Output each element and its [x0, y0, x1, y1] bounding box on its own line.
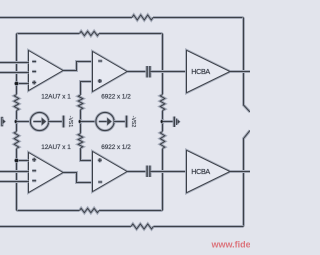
U1 minus mark 2 [32, 70, 36, 73]
wire right rail top with exit diagonal [244, 18, 251, 113]
resistor R7 mid rail upper [78, 95, 83, 110]
wire U4 output [127, 170, 146, 173]
U2 plus mark [98, 79, 102, 83]
ground right marker [173, 117, 176, 128]
wire U3 non-inverting input [17, 159, 29, 162]
wire U3 output step [63, 173, 93, 183]
wire U3 inverting input A [0, 170, 29, 173]
U4 plus mark [98, 158, 102, 162]
wire U1 output step [63, 62, 93, 71]
buffer A1 HCBA top [187, 50, 231, 92]
wire A2 output [230, 170, 250, 173]
wire U1 non-inverting input [17, 82, 29, 85]
node U1 plus tap [14, 81, 19, 86]
svg-text:HCBA: HCBA [191, 67, 210, 76]
op-amp U1 12AU7 top [29, 51, 64, 91]
svg-text:-VS1: -VS1 [67, 116, 73, 128]
wire U3 inverting input B [0, 180, 29, 183]
resistor R8 mid rail lower [78, 134, 83, 149]
svg-text:www.fide: www.fide [211, 240, 251, 250]
current source I2 [96, 112, 114, 130]
U1 minus mark 1 [32, 60, 36, 63]
wire bottom feedback bus [0, 225, 244, 228]
terminal VS2 bar [125, 116, 128, 128]
ground left marker [0, 117, 4, 127]
U3 minus mark 1 [32, 169, 36, 172]
svg-text:12AU7 x 1: 12AU7 x 1 [41, 144, 71, 151]
resistor R6 left rail lower [14, 132, 19, 149]
node mid rail junction [78, 119, 83, 124]
wire right rail bottom with entry diagonal [244, 131, 251, 227]
wire U1 inverting input A [0, 61, 29, 64]
wire inner top bus [17, 32, 163, 35]
wire C1 to buffer A1 [151, 70, 187, 73]
resistor R10 right rail lower [160, 132, 165, 149]
current source I1 [30, 112, 48, 130]
svg-text:HCBA: HCBA [191, 167, 210, 176]
buffer A2 HCBA bottom [187, 150, 231, 192]
wire middle divider rail [81, 82, 93, 161]
wire C2 to buffer A2 [151, 170, 187, 173]
wire left divider rail [15, 34, 18, 211]
resistor R4 inner bottom [80, 208, 99, 212]
capacitor C1 top coupling [147, 66, 150, 78]
resistor R3 inner top [80, 31, 99, 35]
node right rail mid junction [160, 119, 165, 124]
op-amp U3 12AU7 bottom [29, 153, 64, 193]
wire junction to I1 [17, 120, 31, 123]
svg-text:-VS2: -VS2 [130, 116, 136, 128]
resistor R2 bottom feedback [131, 224, 153, 229]
U1 plus mark [32, 81, 36, 85]
terminal VS1 bar [62, 116, 65, 128]
node left rail mid junction [14, 119, 19, 124]
wire U1 inverting input B [0, 71, 29, 74]
node U3 plus tap [14, 158, 19, 163]
wire inner bottom bus [17, 209, 163, 212]
svg-text:6922 x 1/2: 6922 x 1/2 [101, 144, 131, 151]
resistor R1 top feedback [132, 15, 153, 20]
svg-text:6922 x 1/2: 6922 x 1/2 [101, 93, 131, 100]
wire I2 to VS2 terminal [114, 120, 126, 123]
op-amp U2 6922 top [93, 52, 128, 92]
wire junction to ground right [163, 120, 174, 123]
wire U2 output [127, 70, 146, 73]
svg-text:12AU7 x 1: 12AU7 x 1 [41, 93, 71, 100]
U4 minus mark [98, 180, 102, 183]
capacitor C2 bottom coupling [147, 166, 150, 178]
wire junction to I2 [81, 120, 96, 123]
U3 plus mark [32, 158, 36, 162]
op-amp U4 6922 bottom [93, 152, 128, 192]
wire top feedback bus [0, 16, 244, 19]
wire I1 to VS1 terminal [49, 120, 63, 123]
resistor R5 left rail upper [14, 95, 19, 111]
wire right divider rail [161, 34, 164, 211]
U3 minus mark 2 [32, 179, 36, 182]
resistor R9 right rail upper [160, 95, 165, 111]
U2 minus mark [98, 59, 102, 62]
wire A1 output [230, 70, 250, 73]
